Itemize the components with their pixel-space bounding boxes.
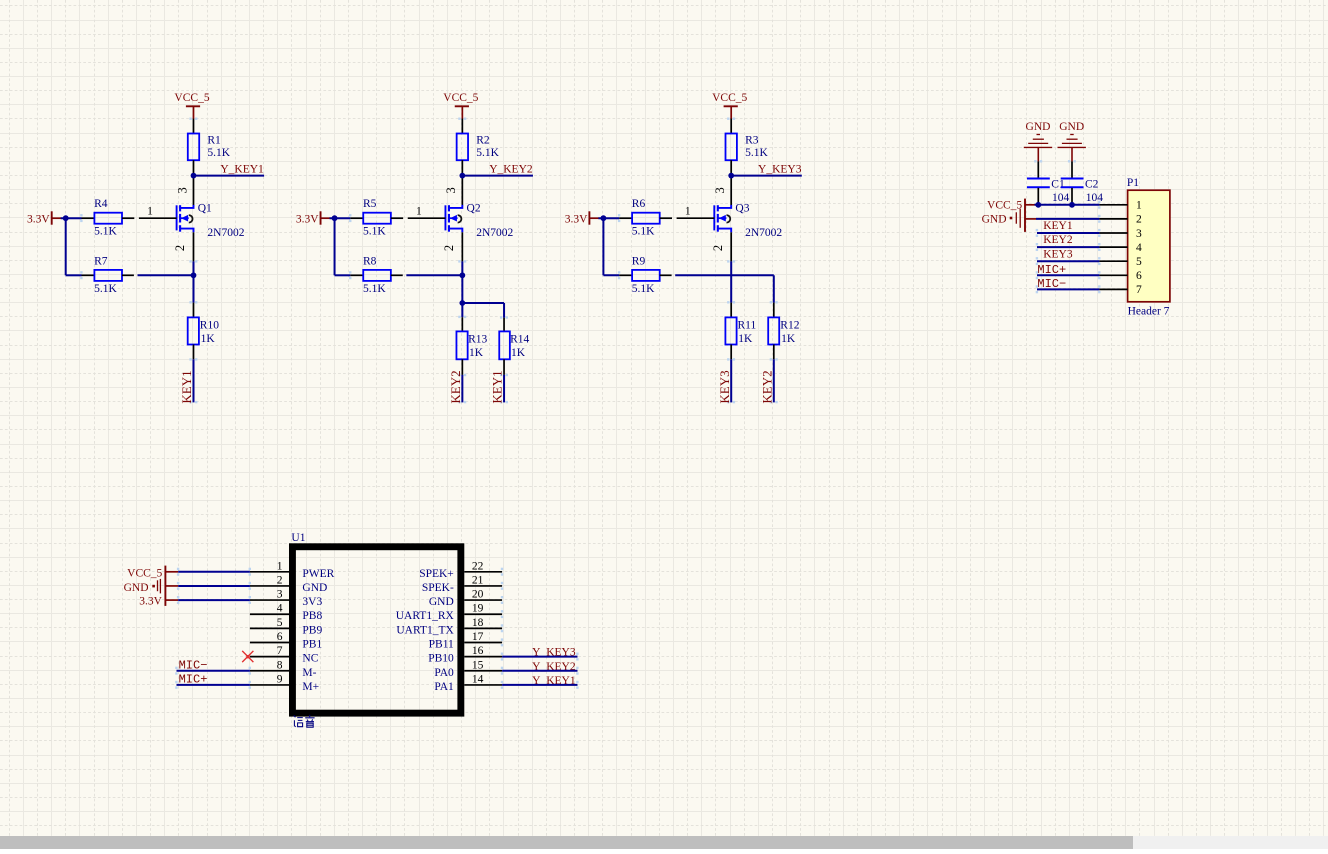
svg-text:R13: R13 bbox=[468, 333, 487, 345]
svg-text:R5: R5 bbox=[363, 198, 377, 210]
net label Y_KEY1 (U1) bbox=[532, 675, 576, 687]
svg-text:3.3V: 3.3V bbox=[139, 596, 162, 608]
svg-text:VCC_5: VCC_5 bbox=[174, 92, 209, 104]
svg-text:2: 2 bbox=[277, 574, 283, 586]
power port 3.3V bbox=[296, 211, 330, 225]
junction bbox=[601, 215, 607, 221]
svg-text:6: 6 bbox=[1136, 270, 1142, 282]
pin 3 (3V3) of U1 bbox=[250, 589, 323, 609]
comment text 'yu yin' (U1) bbox=[294, 715, 315, 727]
wire bbox=[1036, 257, 1101, 265]
pin 22 (SPEK+) of U1 bbox=[419, 560, 503, 580]
net label KEY2 bbox=[448, 370, 463, 403]
svg-text:KEY2: KEY2 bbox=[1043, 234, 1073, 246]
junction bbox=[191, 173, 197, 179]
svg-text:2N7002: 2N7002 bbox=[745, 227, 782, 239]
pin 15 (PA0) of U1 bbox=[434, 659, 503, 679]
svg-text:1K: 1K bbox=[781, 333, 796, 345]
svg-text:R3: R3 bbox=[745, 135, 759, 147]
pin 20 (GND) of U1 bbox=[429, 589, 503, 609]
resistor R3 5.1K bbox=[726, 134, 769, 176]
pin 3 (drain) of Q2 bbox=[444, 176, 462, 206]
svg-text:KEY2: KEY2 bbox=[448, 370, 463, 403]
resistor R11 1K bbox=[725, 317, 756, 359]
pin 2 (GND) of U1 bbox=[250, 574, 327, 594]
svg-text:UART1_TX: UART1_TX bbox=[396, 624, 454, 636]
wire bbox=[502, 653, 579, 661]
net label MIC− (header) bbox=[1037, 277, 1066, 291]
svg-text:VCC_5: VCC_5 bbox=[987, 199, 1022, 211]
wire bbox=[138, 274, 194, 276]
svg-text:Q2: Q2 bbox=[467, 203, 481, 215]
svg-text:Y_KEY2: Y_KEY2 bbox=[489, 163, 533, 175]
wire bbox=[500, 374, 508, 404]
svg-text:5.1K: 5.1K bbox=[632, 283, 655, 295]
svg-text:Y_KEY1: Y_KEY1 bbox=[220, 163, 264, 175]
junction bbox=[728, 173, 734, 179]
net label KEY3 (header) bbox=[1043, 248, 1073, 260]
svg-text:5.1K: 5.1K bbox=[476, 147, 499, 159]
resistor R9 5.1K bbox=[619, 256, 671, 295]
svg-text:PB8: PB8 bbox=[302, 610, 322, 622]
svg-text:3: 3 bbox=[1136, 228, 1142, 240]
wire bbox=[461, 275, 463, 303]
svg-text:3: 3 bbox=[277, 589, 283, 601]
junction bbox=[63, 215, 69, 221]
svg-text:R4: R4 bbox=[94, 198, 108, 210]
svg-text:2N7002: 2N7002 bbox=[207, 227, 244, 239]
net label KEY2 bbox=[759, 370, 774, 403]
transistor Q1 2N7002 bbox=[177, 203, 245, 240]
junction bbox=[1069, 202, 1075, 208]
svg-text:R8: R8 bbox=[363, 256, 377, 268]
svg-text:104: 104 bbox=[1052, 192, 1070, 204]
ground GND (C2) bbox=[1058, 121, 1086, 162]
svg-text:PB10: PB10 bbox=[428, 653, 454, 665]
svg-text:P1: P1 bbox=[1127, 177, 1139, 189]
svg-text:R2: R2 bbox=[476, 135, 490, 147]
wire bbox=[727, 275, 735, 317]
svg-text:R1: R1 bbox=[207, 135, 221, 147]
svg-text:M+: M+ bbox=[302, 681, 319, 693]
resistor R1 5.1K bbox=[188, 134, 231, 176]
svg-text:KEY3: KEY3 bbox=[1043, 248, 1073, 260]
pin 1 (gate) of Q1 bbox=[139, 206, 177, 219]
power port 3.3V bbox=[27, 211, 61, 225]
svg-text:21: 21 bbox=[472, 574, 484, 586]
resistor R5 5.1K bbox=[350, 198, 403, 237]
wire bbox=[330, 214, 352, 222]
svg-text:5.1K: 5.1K bbox=[363, 225, 386, 237]
svg-text:3.3V: 3.3V bbox=[296, 213, 319, 225]
svg-text:4: 4 bbox=[277, 603, 283, 615]
junction bbox=[459, 173, 465, 179]
wire bbox=[458, 260, 466, 275]
resistor R14 1K bbox=[499, 331, 529, 375]
svg-text:5: 5 bbox=[1136, 256, 1142, 268]
svg-text:17: 17 bbox=[472, 631, 484, 643]
svg-text:SPEK+: SPEK+ bbox=[419, 568, 454, 580]
resistor R10 1K bbox=[188, 317, 220, 359]
svg-text:3.3V: 3.3V bbox=[27, 213, 50, 225]
svg-text:3V3: 3V3 bbox=[302, 596, 322, 608]
svg-text:PB9: PB9 bbox=[302, 624, 322, 636]
junction bbox=[459, 272, 465, 278]
wire bbox=[175, 681, 251, 689]
wire bbox=[727, 260, 735, 275]
svg-text:19: 19 bbox=[472, 603, 484, 615]
svg-text:PB1: PB1 bbox=[302, 639, 322, 651]
wire bbox=[458, 118, 466, 135]
svg-text:4: 4 bbox=[1136, 242, 1142, 254]
svg-text:22: 22 bbox=[472, 560, 484, 572]
pin 1 (PWER) of U1 bbox=[250, 560, 335, 580]
svg-text:1: 1 bbox=[277, 560, 283, 572]
pin 2 (source) of Q2 bbox=[442, 232, 462, 261]
svg-text:5.1K: 5.1K bbox=[94, 225, 117, 237]
svg-text:6: 6 bbox=[277, 631, 283, 643]
wire bbox=[61, 214, 83, 222]
wire bbox=[189, 260, 197, 275]
svg-text:15: 15 bbox=[472, 659, 484, 671]
svg-text:2: 2 bbox=[1136, 214, 1142, 226]
svg-text:2: 2 bbox=[711, 245, 725, 251]
svg-text:UART1_RX: UART1_RX bbox=[396, 610, 455, 622]
svg-text:NC: NC bbox=[302, 653, 318, 665]
node Y_KEY3 bbox=[758, 163, 802, 175]
svg-text:KEY1: KEY1 bbox=[490, 370, 505, 403]
ground GND (U1) bbox=[124, 579, 179, 594]
svg-text:GND: GND bbox=[982, 213, 1007, 225]
svg-text:2N7002: 2N7002 bbox=[476, 227, 513, 239]
wire bbox=[727, 118, 735, 135]
capacitor C2 104 bbox=[1061, 178, 1104, 204]
resistor R12 1K bbox=[768, 317, 800, 359]
svg-text:VCC_5: VCC_5 bbox=[712, 92, 747, 104]
svg-text:Q3: Q3 bbox=[735, 203, 749, 215]
wire bbox=[458, 303, 466, 331]
wire bbox=[462, 175, 533, 177]
net label MIC- (U1) bbox=[179, 658, 208, 672]
wire bbox=[189, 118, 197, 135]
svg-text:1: 1 bbox=[685, 206, 691, 218]
svg-text:PWER: PWER bbox=[302, 568, 334, 580]
node Y_KEY1 bbox=[220, 163, 264, 175]
svg-text:PB11: PB11 bbox=[429, 639, 454, 651]
wire bbox=[727, 358, 735, 403]
power port 3.3V bbox=[565, 211, 599, 225]
IC U1 (voice chip) bbox=[291, 532, 460, 713]
resistor R8 5.1K bbox=[350, 256, 402, 295]
svg-text:3.3V: 3.3V bbox=[565, 213, 588, 225]
svg-text:KEY1: KEY1 bbox=[179, 370, 194, 403]
svg-text:PA1: PA1 bbox=[434, 681, 454, 693]
resistor R6 5.1K bbox=[619, 198, 672, 237]
junction bbox=[1035, 202, 1041, 208]
power port VCC_5 (block Q3) bbox=[712, 92, 747, 119]
pin 5 (PB9) of U1 bbox=[250, 617, 323, 637]
wire bbox=[175, 667, 251, 675]
svg-text:7: 7 bbox=[1136, 284, 1142, 296]
svg-text:5.1K: 5.1K bbox=[745, 147, 768, 159]
wire bbox=[458, 374, 466, 404]
svg-text:5.1K: 5.1K bbox=[207, 147, 230, 159]
svg-text:SPEK-: SPEK- bbox=[422, 582, 454, 594]
svg-text:M-: M- bbox=[302, 667, 316, 679]
svg-text:R7: R7 bbox=[94, 256, 108, 268]
svg-text:8: 8 bbox=[277, 659, 283, 671]
wire bbox=[462, 303, 508, 331]
pin 8 (M-) of U1 bbox=[250, 659, 317, 679]
junction bbox=[332, 215, 338, 221]
pin 2 (source) of Q3 bbox=[711, 232, 731, 261]
svg-text:U1: U1 bbox=[291, 532, 305, 544]
pin 18 (UART1_TX) of U1 bbox=[396, 617, 503, 637]
svg-text:KEY1: KEY1 bbox=[1043, 220, 1073, 232]
svg-text:2: 2 bbox=[442, 245, 456, 251]
net label KEY1 bbox=[179, 370, 194, 403]
svg-text:5.1K: 5.1K bbox=[363, 283, 386, 295]
wire bbox=[675, 275, 778, 317]
svg-text:GND: GND bbox=[124, 582, 149, 594]
transistor Q3 2N7002 bbox=[714, 203, 782, 240]
wire bbox=[189, 358, 197, 403]
wire bbox=[1036, 229, 1101, 237]
net label KEY1 (header) bbox=[1043, 220, 1073, 232]
svg-text:104: 104 bbox=[1086, 192, 1104, 204]
power port 3.3V (U1) bbox=[139, 596, 178, 608]
transistor Q2 2N7002 bbox=[445, 203, 513, 240]
wire bbox=[177, 568, 251, 576]
wire bbox=[1036, 215, 1101, 223]
svg-text:1: 1 bbox=[147, 206, 153, 218]
svg-text:KEY2: KEY2 bbox=[759, 370, 774, 403]
svg-text:GND: GND bbox=[302, 582, 327, 594]
svg-text:3: 3 bbox=[713, 187, 727, 193]
resistor R13 1K bbox=[456, 331, 487, 375]
pin 1 (gate) of Q2 bbox=[408, 206, 446, 219]
svg-text:1K: 1K bbox=[201, 333, 216, 345]
power port VCC_5 (block Q2) bbox=[443, 92, 478, 119]
svg-text:3: 3 bbox=[175, 187, 189, 193]
svg-text:C2: C2 bbox=[1085, 178, 1099, 190]
pin 21 (SPEK-) of U1 bbox=[422, 574, 503, 594]
wire bbox=[598, 214, 620, 222]
junction bbox=[459, 300, 465, 306]
pin 3 (drain) of Q1 bbox=[175, 176, 193, 206]
svg-text:5.1K: 5.1K bbox=[632, 225, 655, 237]
power port VCC_5 (header) bbox=[987, 199, 1034, 232]
svg-text:5: 5 bbox=[277, 617, 283, 629]
pin 17 (PB11) of U1 bbox=[429, 631, 504, 651]
wire bbox=[66, 217, 83, 279]
svg-text:C1: C1 bbox=[1051, 178, 1065, 190]
svg-text:PA0: PA0 bbox=[434, 667, 454, 679]
svg-text:20: 20 bbox=[472, 589, 484, 601]
net label KEY2 (header) bbox=[1043, 234, 1073, 246]
svg-text:18: 18 bbox=[472, 617, 484, 629]
ground GND (C1) bbox=[1024, 121, 1052, 162]
net label Y_KEY3 (U1) bbox=[532, 647, 576, 659]
net label KEY3 bbox=[717, 370, 732, 403]
pin 19 (UART1_RX) of U1 bbox=[396, 603, 503, 623]
svg-text:GND: GND bbox=[429, 596, 454, 608]
resistor R4 5.1K bbox=[82, 198, 135, 237]
wire bbox=[731, 175, 802, 177]
pin 9 (M+) of U1 bbox=[250, 673, 319, 693]
svg-text:VCC_5: VCC_5 bbox=[127, 567, 162, 579]
scrollbar track bbox=[0, 836, 1328, 849]
pin 16 (PB10) of U1 bbox=[428, 645, 503, 665]
svg-text:VCC_5: VCC_5 bbox=[443, 92, 478, 104]
wire bbox=[1036, 271, 1101, 279]
wire bbox=[502, 681, 579, 689]
pin 4 (PB8) of U1 bbox=[250, 603, 323, 623]
svg-text:14: 14 bbox=[472, 673, 484, 685]
pin 14 (PA1) of U1 bbox=[434, 673, 503, 693]
wire bbox=[502, 667, 579, 675]
svg-text:R14: R14 bbox=[510, 333, 529, 345]
svg-text:R10: R10 bbox=[200, 319, 219, 331]
ground GND (header) bbox=[982, 209, 1036, 228]
svg-text:GND: GND bbox=[1026, 121, 1051, 133]
scrollbar thumb bbox=[0, 836, 1133, 849]
wire bbox=[189, 275, 197, 317]
svg-text:GND: GND bbox=[1059, 121, 1084, 133]
wire bbox=[194, 175, 265, 177]
no-ERC marker (pin 7) bbox=[242, 651, 253, 662]
svg-text:1: 1 bbox=[416, 206, 422, 218]
svg-text:R6: R6 bbox=[632, 198, 646, 210]
svg-text:16: 16 bbox=[472, 645, 484, 657]
svg-text:1K: 1K bbox=[738, 333, 753, 345]
pin 7 (NC) of U1 bbox=[250, 645, 319, 665]
pin 6 (PB1) of U1 bbox=[250, 631, 323, 651]
wire bbox=[177, 582, 251, 590]
wire bbox=[770, 358, 778, 403]
svg-text:R12: R12 bbox=[780, 319, 799, 331]
net label Y_KEY2 (U1) bbox=[532, 661, 576, 673]
connector P1 Header 7 bbox=[1099, 177, 1170, 318]
wire bbox=[1034, 160, 1042, 178]
node Y_KEY2 bbox=[489, 163, 533, 175]
svg-text:2: 2 bbox=[173, 245, 187, 251]
svg-text:Y_KEY3: Y_KEY3 bbox=[758, 163, 802, 175]
wire bbox=[1035, 201, 1101, 209]
wire bbox=[1036, 243, 1101, 251]
pin 3 (drain) of Q3 bbox=[713, 176, 731, 206]
wire bbox=[335, 217, 352, 279]
net label MIC+ (U1) bbox=[179, 672, 208, 686]
svg-text:R9: R9 bbox=[632, 256, 646, 268]
pin 1 (gate) of Q3 bbox=[677, 206, 715, 219]
wire bbox=[177, 596, 251, 604]
wire bbox=[1036, 285, 1101, 293]
power port VCC_5 (block Q1) bbox=[174, 92, 209, 119]
wire bbox=[1068, 160, 1076, 178]
power port VCC_5 (U1) bbox=[127, 566, 178, 606]
resistor R2 5.1K bbox=[457, 134, 500, 176]
svg-text:5.1K: 5.1K bbox=[94, 283, 117, 295]
svg-text:3: 3 bbox=[444, 187, 458, 193]
wire bbox=[406, 274, 462, 276]
capacitor C1 104 bbox=[1027, 178, 1070, 204]
svg-text:R11: R11 bbox=[738, 319, 757, 331]
net label KEY1 bbox=[490, 370, 505, 403]
svg-text:1K: 1K bbox=[511, 347, 526, 359]
wire bbox=[603, 217, 620, 279]
svg-text:KEY3: KEY3 bbox=[717, 370, 732, 403]
resistor R7 5.1K bbox=[82, 256, 134, 295]
svg-text:9: 9 bbox=[277, 673, 283, 685]
svg-text:7: 7 bbox=[277, 645, 283, 657]
svg-text:1: 1 bbox=[1136, 200, 1142, 212]
svg-text:Q1: Q1 bbox=[198, 203, 212, 215]
svg-text:Header 7: Header 7 bbox=[1128, 306, 1170, 318]
junction bbox=[191, 272, 197, 278]
pin 2 (source) of Q1 bbox=[173, 232, 193, 261]
svg-text:1K: 1K bbox=[469, 347, 484, 359]
net label MIC+ (header) bbox=[1037, 263, 1066, 277]
